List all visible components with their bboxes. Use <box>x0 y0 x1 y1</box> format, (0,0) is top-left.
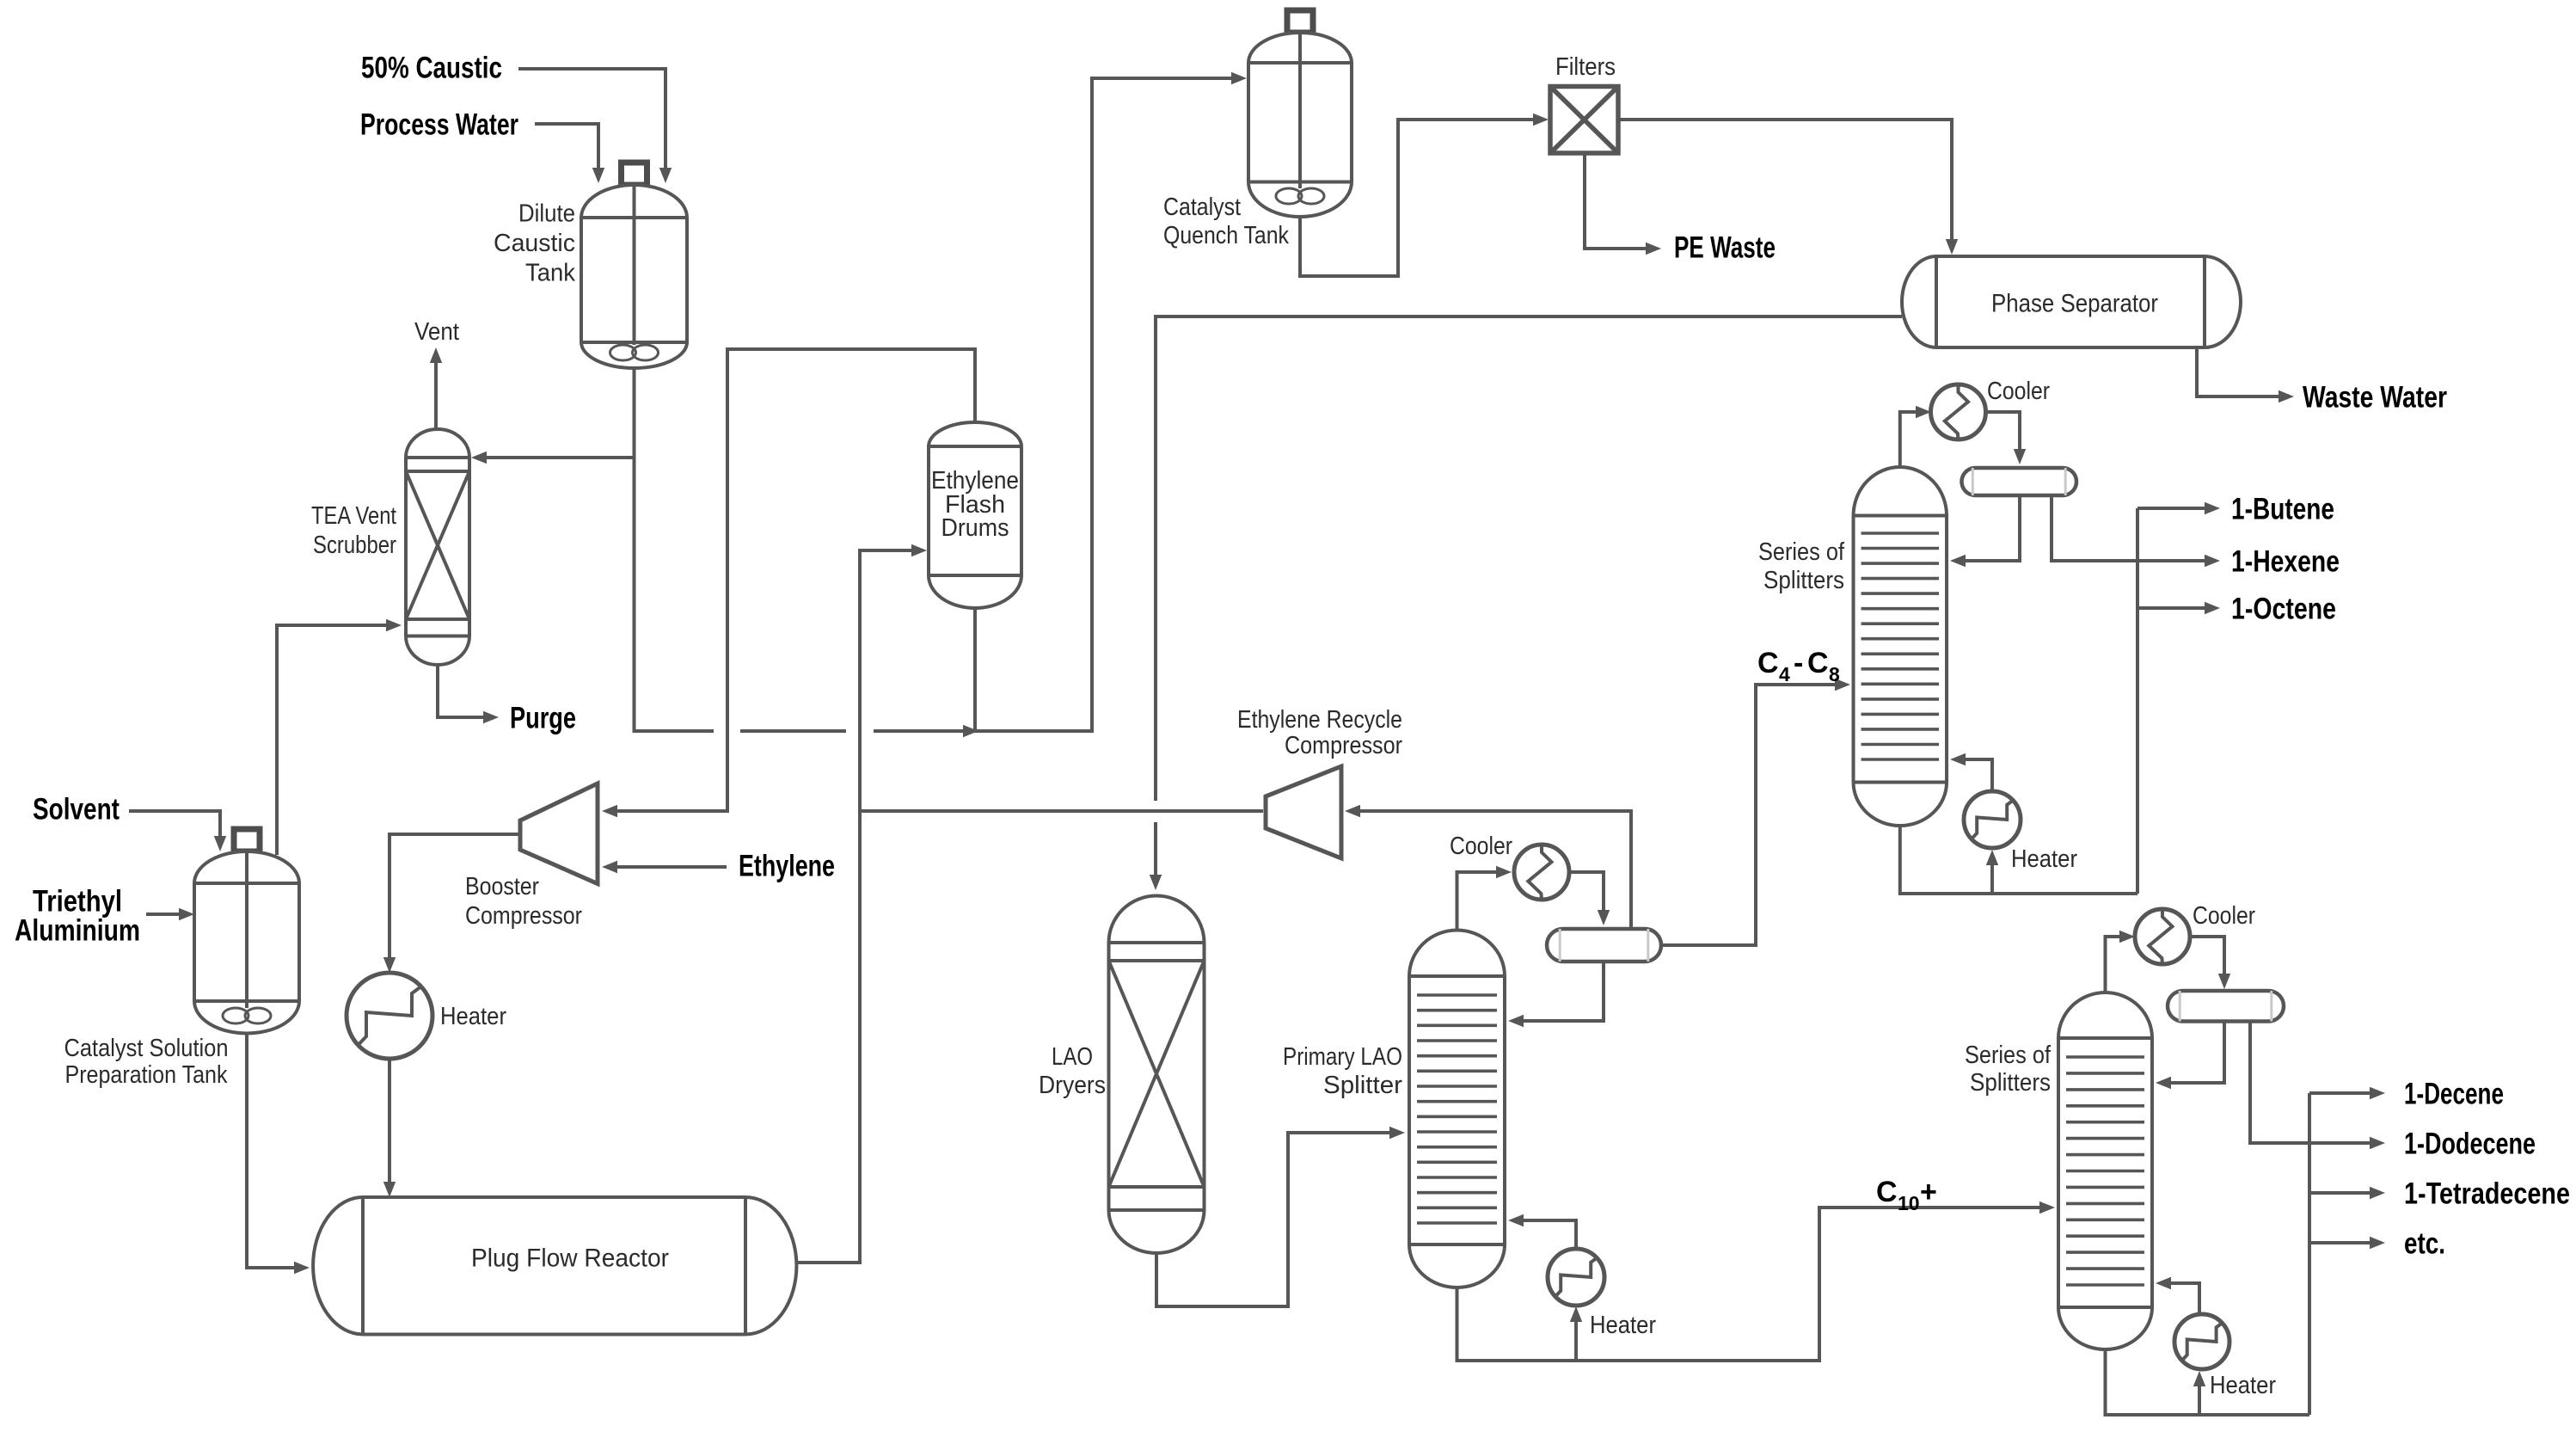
reflux drum of second splitter <box>2168 991 2284 1022</box>
wire: product header of first splitter <box>2136 508 2139 894</box>
svg-text:PE Waste: PE Waste <box>1674 230 1776 264</box>
wire: booster discharge to heater <box>389 834 520 966</box>
svg-text:Compressor: Compressor <box>465 902 582 930</box>
compressor: Booster Compressor <box>520 784 598 884</box>
svg-text:1-Hexene: 1-Hexene <box>2231 544 2340 578</box>
vessel: Plug Flow Reactor <box>313 1197 796 1335</box>
svg-text:1-Octene: 1-Octene <box>2231 592 2336 625</box>
wire: 1-Butene branch <box>2137 507 2213 510</box>
wire: Triethyl Aluminium feed <box>146 913 187 916</box>
compressor: Ethylene Recycle Compressor <box>1266 766 1341 858</box>
svg-text:Series of: Series of <box>1965 1042 2052 1069</box>
wire: primary splitter reboiler return <box>1515 1220 1576 1250</box>
vessel: Catalyst Solution Preparation Tank <box>194 829 299 1034</box>
wire: filters to PE waste <box>1585 153 1654 249</box>
wire: reactor effluent riser to flash drums <box>797 550 921 1263</box>
wire: vent from TEA scrubber <box>434 354 438 429</box>
column: Primary LAO Splitter <box>1409 931 1505 1287</box>
wire: second splitter bottoms <box>2106 1349 2310 1415</box>
svg-text:TEA Vent: TEA Vent <box>311 502 396 530</box>
wire: drum distillate to 1-Hexene <box>2052 495 2213 561</box>
wire: first splitter bottoms <box>1900 826 2137 894</box>
svg-text:50% Caustic: 50% Caustic <box>361 51 502 84</box>
wire: ethylene feed to booster compressor <box>609 865 727 869</box>
svg-text:Cooler: Cooler <box>1450 833 1512 860</box>
svg-text:Splitters: Splitters <box>1970 1069 2051 1097</box>
svg-text:Catalyst Solution: Catalyst Solution <box>64 1035 229 1062</box>
svg-text:Cooler: Cooler <box>1987 378 2050 405</box>
svg-text:Heater: Heater <box>2210 1372 2276 1399</box>
svg-text:Primary LAO: Primary LAO <box>1283 1043 1402 1071</box>
svg-text:Purge: Purge <box>510 701 576 734</box>
wire: drum reflux to second splitter <box>2162 1022 2224 1084</box>
svg-text:1-Tetradecene: 1-Tetradecene <box>2404 1177 2570 1210</box>
wire: first splitter reboiler return <box>1957 759 1992 791</box>
wire: 50% Caustic feed <box>518 69 665 176</box>
svg-text:Aluminium: Aluminium <box>15 913 140 947</box>
vessel: Ethylene Flash Drums <box>929 422 1021 608</box>
svg-text:Tank: Tank <box>525 260 575 287</box>
svg-text:Splitters: Splitters <box>1763 567 1844 594</box>
svg-text:Catalyst: Catalyst <box>1163 194 1241 221</box>
wire: cooler to reflux drum <box>1569 872 1604 919</box>
svg-text:Vent: Vent <box>414 318 459 346</box>
wire: filters to phase separator <box>1618 120 1952 248</box>
wire: heater to plug flow reactor <box>388 1059 391 1190</box>
vessel: Catalyst Quench Tank <box>1248 10 1352 217</box>
heater of second splitter reboiler <box>2174 1314 2229 1369</box>
wire: first splitter reboiler riser <box>1990 857 1994 894</box>
wire: second splitter reboiler return <box>2162 1283 2199 1314</box>
svg-text:Ethylene Recycle: Ethylene Recycle <box>1237 706 1402 734</box>
svg-text:Waste Water: Waste Water <box>2303 380 2447 414</box>
wire: second splitter overhead to cooler <box>2106 937 2129 992</box>
svg-text:Dilute: Dilute <box>518 200 575 228</box>
wire: etc. branch <box>2309 1241 2378 1244</box>
wire: second splitter reboiler riser <box>2198 1378 2201 1415</box>
svg-text:Heater: Heater <box>1590 1312 1656 1339</box>
svg-text:Ethylene: Ethylene <box>739 849 835 882</box>
wire: drum distillate C4-C8 to first splitter <box>1661 685 1843 945</box>
column: Series of Splitters (C10+) <box>2058 992 2152 1349</box>
column: LAO Dryers <box>1109 895 1205 1253</box>
wire: product header of second splitter <box>2308 1093 2311 1415</box>
wire: Solvent feed <box>129 811 220 845</box>
wire: primary splitter reboiler riser <box>1574 1313 1578 1361</box>
wire: primary splitter overhead to cooler <box>1457 872 1506 930</box>
wire: cooler to reflux drum <box>1986 412 2021 458</box>
wire: prep tank vent to scrubber <box>277 625 395 855</box>
wire: cooler to reflux drum <box>2190 937 2224 982</box>
junction arrow on caustic line after flash drum bottoms <box>963 725 978 737</box>
vessel: Phase Separator <box>1902 256 2241 347</box>
svg-text:Drums: Drums <box>941 514 1009 542</box>
wire: Process Water feed <box>535 124 598 176</box>
column: Series of Splitters (C4-C8) <box>1854 467 1947 826</box>
svg-text:1-Dodecene: 1-Dodecene <box>2404 1127 2536 1160</box>
cooler of second splitter <box>2135 909 2190 964</box>
wire: LAO dryers bottoms to primary splitter feed <box>1156 1133 1398 1306</box>
wire: recycle compressor suction from drum <box>1352 811 1631 929</box>
svg-text:Process Water: Process Water <box>360 108 518 141</box>
wire: phase separator to waste water <box>2197 347 2287 396</box>
svg-text:Dryers: Dryers <box>1039 1072 1106 1099</box>
svg-text:Plug Flow Reactor: Plug Flow Reactor <box>471 1244 669 1273</box>
wire: drum distillate to 1-Dodecene <box>2250 1022 2378 1144</box>
svg-text:Splitter: Splitter <box>1323 1072 1402 1099</box>
reflux drum of first splitter <box>1962 468 2077 495</box>
reflux drum of primary splitter <box>1547 929 1661 962</box>
svg-text:Phase Separator: Phase Separator <box>1991 290 2158 318</box>
wire: first splitter overhead to cooler <box>1900 412 1924 467</box>
heater of first splitter reboiler <box>1964 791 2021 848</box>
heater before reactor <box>347 973 432 1059</box>
svg-text:etc.: etc. <box>2404 1226 2445 1260</box>
wire: dilute caustic to quench tank (gaps at line crossings) <box>635 366 715 731</box>
wire: phase separator to LAO dryers (vertical gap at recycle crossing) <box>1156 316 1902 801</box>
wire: catalyst solution to reactor <box>247 1034 303 1268</box>
svg-text:Compressor: Compressor <box>1285 732 1402 759</box>
svg-text:Heater: Heater <box>440 1003 506 1030</box>
svg-text:Booster: Booster <box>465 873 539 900</box>
wire: drum reflux to first splitter <box>1957 495 2020 561</box>
wire: 1-Octene branch <box>2137 606 2213 610</box>
svg-text:Quench Tank: Quench Tank <box>1163 222 1289 249</box>
wire: quench tank to filters <box>1300 120 1542 276</box>
wire: primary splitter bottoms / C10+ riser <box>1457 1208 2049 1361</box>
wire: caustic branch to scrubber top <box>478 456 635 459</box>
cooler of primary splitter <box>1514 845 1569 900</box>
wire: recycle compressor discharge to riser <box>860 809 1263 813</box>
wire: 1-Decene branch <box>2309 1091 2378 1095</box>
svg-text:Solvent: Solvent <box>33 792 120 826</box>
svg-text:1-Butene: 1-Butene <box>2231 492 2334 525</box>
wire: flash drum overheads to booster compressor <box>609 349 975 811</box>
vessel: Dilute Caustic Tank <box>581 163 687 368</box>
svg-text:Caustic: Caustic <box>494 230 575 257</box>
svg-text:Series of: Series of <box>1758 538 1845 566</box>
column: TEA Vent Scrubber <box>406 429 469 665</box>
wire: flash drum bottoms to caustic line <box>973 608 977 731</box>
wire: 1-Tetradecene branch <box>2309 1191 2378 1195</box>
svg-text:Cooler: Cooler <box>2193 902 2255 930</box>
svg-text:Scrubber: Scrubber <box>313 532 396 559</box>
wire: drum reflux to primary splitter <box>1515 962 1604 1021</box>
cooler of first splitter <box>1931 384 1986 439</box>
svg-text:LAO: LAO <box>1052 1043 1093 1071</box>
svg-text:Heater: Heater <box>2011 845 2077 873</box>
svg-text:Preparation Tank: Preparation Tank <box>65 1061 228 1089</box>
wire: purge from scrubber bottom <box>438 665 492 717</box>
svg-text:1-Decene: 1-Decene <box>2404 1077 2504 1110</box>
filters <box>1550 87 1618 154</box>
svg-text:Filters: Filters <box>1555 53 1616 81</box>
heater of primary splitter reboiler <box>1548 1249 1604 1306</box>
